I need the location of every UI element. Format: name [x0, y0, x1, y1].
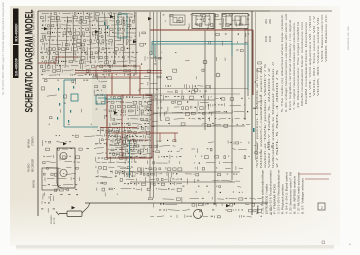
svg-text:MF/AM: MF/AM [27, 139, 31, 148]
svg-text:Indicated switch is 'Repeat' p: Indicated switch is 'Repeat' position. /… [272, 61, 275, 168]
svg-text:from negative terminal of batt: from negative terminal of battery. / no … [289, 19, 292, 110]
svg-text:MODE switch—radio/tape sele: MODE switch—radio/tape select sw [260, 66, 263, 168]
svg-text:switch at 'TAPE' position. VER: switch at 'TAPE' position. VERIFY / S [264, 63, 267, 168]
svg-text:Mis/M modulated 'blank' resist: Mis/M modulated 'blank' resistance mm [301, 22, 304, 106]
svg-text:VR105, 305: Volume control VR.: VR105, 305: Volume control VR. [317, 15, 320, 96]
svg-text:RX-4900F: RX-4900F [13, 23, 18, 42]
svg-text:49.03: 49.03 [265, 35, 268, 42]
svg-text:SX-4900F: SX-4900F [13, 57, 18, 76]
svg-text:P: Playback position: P: Playback position [282, 183, 285, 214]
svg-text:Mod/M modulated blank. Resista: Mod/M modulated blank. Resistance [305, 21, 308, 104]
svg-text:10. Measurements: The singal m: 10. Measurements: The singal mod/M bl [297, 21, 300, 108]
svg-text:2. S2-1~S2-6: Function/band sw: 2. S2-1~S2-6: Function/band switch [270, 169, 273, 214]
svg-text:AM/FM STEREO: AM/FM STEREO [33, 11, 36, 30]
svg-text:49.03: 49.03 [268, 142, 270, 148]
svg-text:VR601: Balance control VR.: VR601: Balance control VR. [321, 14, 324, 62]
svg-text:49.05: 49.05 [269, 35, 272, 42]
svg-text:RADIO: RADIO [27, 163, 31, 172]
svg-text:8. S7: Voltage selector: 8. S7: Voltage selector [302, 178, 305, 214]
svg-text:5. The radio (s) attached when: 5. The radio (s) attached when tape rela… [281, 13, 284, 112]
svg-text:Notes:: Notes: [256, 205, 260, 214]
svg-text:RECORDER: RECORDER [33, 159, 35, 172]
svg-text:5. S5: Stereo/mono switch F:: 5. S5: Stereo/mono switch F: FM [290, 172, 293, 214]
svg-text:VR101, 301: Tone source VR. /: VR101, 301: Tone source VR. / V [313, 15, 316, 96]
svg-text:6. DC voltage measurements are: 6. DC voltage measurements are taken wit… [285, 14, 288, 112]
svg-text:EXT SP: EXT SP [54, 217, 56, 224]
svg-text:3. S3-1~S3-6: Record/playback: 3. S3-1~S3-6: Record/playback sw [278, 170, 281, 214]
svg-text:VR605: Balance ctrl.: VR605: Balance ctrl. [325, 13, 328, 62]
svg-text:4900F/4960F SCH 1982: 4900F/4960F SCH 1982 [348, 26, 350, 50]
svg-text:7. S7: MUTING switch and power: 7. S7: MUTING switch and power [298, 172, 301, 214]
svg-text:dB/b: dB/b [269, 18, 272, 24]
svg-text:PHONES: PHONES [51, 215, 53, 224]
svg-text:AM/SW: AM/SW [33, 179, 36, 188]
svg-text:(STEREO) / radio: (STEREO) / radio [266, 183, 269, 214]
svg-text:1. S1: Remote switch/radio/off: 1. S1: Remote switch/radio/off/tape [262, 169, 265, 214]
svg-text:STEREO: STEREO [33, 136, 35, 146]
svg-text:RADIO CASSETTE: RADIO CASSETTE [33, 34, 36, 56]
svg-text:4. S4-1~S4-2: Band switch: 4. S4-1~S4-2: Band switch [286, 171, 289, 214]
svg-text:7. No signal measurement taken: 7. No signal measurement taken with elec… [293, 22, 296, 110]
svg-text:2 / SPL 5 SPL 4 3800 /: 2 / SPL 5 SPL 4 3800 / 5 [276, 68, 279, 168]
svg-text:dB/a: dB/a [265, 18, 268, 24]
svg-text:dB: dB [272, 145, 274, 148]
svg-text:F: FM/AM POS: F: FM/AM POS [274, 183, 277, 214]
svg-text:No. 16 SX/RX-4900F, 4960F page: No. 16 SX/RX-4900F, 4960F page 6-7 schem… [2, 2, 5, 95]
svg-text:14. VHF: VCO adjustment VR. /: 14. VHF: VCO adjustment VR. / VR10 [309, 15, 312, 98]
svg-text:6. S6: NFB/B switch: 6. S6: NFB/B switch [294, 175, 297, 214]
svg-text:'STEREO' position. — MODE at r: 'STEREO' position. — MODE at rec/p [256, 67, 259, 168]
svg-text:VER DIFY TAPE S. RADIO: VER DIFY TAPE S. RADIO / 2 [268, 66, 271, 168]
